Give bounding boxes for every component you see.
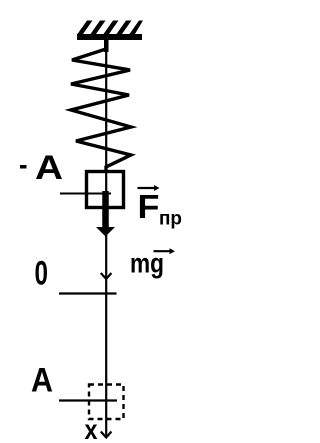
svg-text:пр: пр	[159, 209, 182, 230]
svg-text:A: A	[35, 149, 63, 187]
svg-text:0: 0	[35, 255, 49, 293]
svg-text:mg: mg	[130, 248, 164, 279]
svg-text:x: x	[85, 414, 98, 443]
svg-text:F: F	[138, 188, 160, 225]
svg-text:A: A	[31, 362, 53, 400]
